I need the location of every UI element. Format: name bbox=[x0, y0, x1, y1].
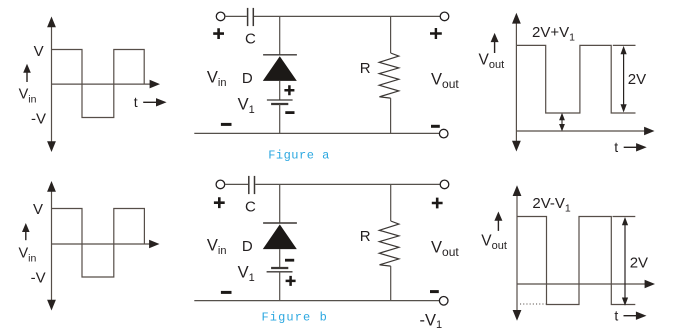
axis arrowhead down bbox=[47, 300, 56, 311]
label arrow up small bbox=[25, 230, 27, 240]
diode D triangle bbox=[263, 224, 297, 249]
terminal output bottom (open circle) bbox=[439, 129, 448, 138]
minus sign output bottom bbox=[430, 290, 439, 293]
svg-text:-V: -V bbox=[31, 270, 46, 287]
battery V1 long plate (+) bbox=[267, 99, 293, 101]
battery V1 short plate (-) on top bbox=[271, 267, 288, 269]
diode D triangle bbox=[263, 56, 297, 81]
diode D cathode bar bbox=[263, 222, 297, 224]
axis arrowhead up bbox=[513, 185, 522, 196]
t axis arrowhead bbox=[150, 80, 160, 89]
wire top junction down to resistor bbox=[390, 184, 392, 221]
svg-text:R: R bbox=[360, 60, 371, 77]
svg-text:2V: 2V bbox=[630, 254, 648, 271]
svg-text:D: D bbox=[242, 238, 253, 255]
label t arrow bbox=[624, 315, 638, 317]
plus sign input top bbox=[213, 28, 224, 39]
wire terminal to capacitor bbox=[225, 183, 248, 185]
label Vout arrow bbox=[494, 42, 496, 53]
terminal input top (open circle) bbox=[216, 180, 225, 189]
wire battery to bottom bbox=[279, 104, 281, 133]
svg-text:2V+V1: 2V+V1 bbox=[532, 24, 575, 44]
plus sign input top bbox=[214, 197, 225, 208]
svg-text:V: V bbox=[33, 201, 43, 218]
battery plus sign bbox=[286, 276, 296, 286]
axis arrowhead down bbox=[47, 141, 56, 152]
minus sign input bottom bbox=[221, 291, 232, 294]
label arrow up small bbox=[26, 71, 28, 82]
wire capacitor to output terminal bbox=[255, 183, 440, 185]
svg-text:V: V bbox=[34, 43, 44, 60]
svg-text:C: C bbox=[245, 198, 256, 215]
wire battery to bottom bbox=[279, 272, 281, 301]
label t arrow bbox=[143, 101, 157, 103]
wire top junction down to diode bbox=[279, 184, 281, 223]
t axis arrowhead bbox=[644, 127, 654, 136]
Vin axis vertical bbox=[51, 189, 53, 302]
label t arrow bbox=[624, 146, 638, 148]
Vin axis vertical bbox=[51, 25, 53, 143]
wire capacitor to output terminal bbox=[254, 15, 440, 17]
wire resistor to bottom bbox=[390, 98, 392, 133]
capacitor C plate 1 bbox=[247, 8, 249, 26]
battery minus sign bbox=[285, 259, 294, 262]
2V dimension arrow bbox=[623, 50, 625, 108]
t axis arrowhead bbox=[645, 280, 655, 289]
Vout axis vertical bbox=[516, 193, 518, 312]
square wave Vin bbox=[52, 50, 145, 118]
terminal input top (open circle) bbox=[216, 12, 225, 21]
resistor R zigzag bbox=[379, 53, 399, 98]
2V reference tick top bbox=[613, 44, 636, 46]
wire top junction down to resistor bbox=[390, 16, 392, 53]
square wave Vin bbox=[52, 209, 145, 278]
square wave Vout bbox=[517, 217, 635, 305]
svg-text:R: R bbox=[360, 228, 371, 245]
svg-text:Figure a: Figure a bbox=[268, 148, 330, 162]
square wave Vout bbox=[516, 45, 635, 113]
battery plus sign bbox=[284, 85, 294, 95]
svg-text:t: t bbox=[614, 139, 618, 155]
wire terminal to capacitor bbox=[225, 15, 247, 17]
plus sign output top bbox=[432, 198, 443, 209]
terminal output top (open circle) bbox=[440, 12, 449, 21]
capacitor C plate 2 bbox=[252, 8, 254, 26]
capacitor C plate 1 bbox=[248, 176, 250, 194]
svg-text:2V: 2V bbox=[628, 71, 646, 88]
t axis horizontal bbox=[516, 130, 645, 132]
t axis horizontal bbox=[52, 243, 151, 245]
label Vout arrow bbox=[497, 220, 499, 231]
t axis horizontal bbox=[517, 283, 646, 285]
svg-text:Figure b: Figure b bbox=[262, 310, 328, 324]
Vout axis vertical bbox=[515, 21, 517, 144]
svg-text:-V: -V bbox=[31, 111, 46, 128]
svg-text:t: t bbox=[614, 308, 618, 324]
resistor R zigzag bbox=[379, 221, 399, 266]
axis arrowhead down bbox=[512, 141, 521, 152]
wire diode to battery bbox=[279, 249, 281, 268]
battery minus sign bbox=[285, 111, 294, 114]
battery V1 long plate (+) below bbox=[267, 271, 293, 273]
wire resistor to bottom bbox=[390, 266, 392, 301]
wire diode to battery bbox=[279, 81, 281, 100]
svg-text:C: C bbox=[245, 30, 256, 47]
axis arrowhead up bbox=[47, 17, 56, 28]
capacitor C plate 2 bbox=[254, 176, 256, 194]
svg-text:t: t bbox=[134, 94, 138, 110]
axis arrowhead down bbox=[513, 310, 522, 321]
terminal output top (open circle) bbox=[440, 180, 449, 189]
V1 dimension arrow small bbox=[561, 117, 563, 127]
diode D cathode bar bbox=[263, 54, 297, 56]
2V reference tick top bbox=[613, 216, 636, 218]
axis arrowhead up bbox=[47, 181, 56, 192]
2V dimension arrow bbox=[624, 222, 626, 300]
bottom wire bbox=[194, 132, 439, 134]
svg-text:D: D bbox=[242, 70, 253, 87]
t axis arrowhead bbox=[149, 240, 159, 249]
axis arrowhead up bbox=[512, 13, 521, 24]
plus sign output top bbox=[430, 28, 442, 39]
battery V1 short plate (-) bbox=[271, 103, 288, 105]
terminal output bottom (open circle) bbox=[439, 297, 448, 306]
minus sign output bottom bbox=[431, 125, 440, 128]
wire top junction down to diode bbox=[279, 16, 281, 54]
minus sign input bottom bbox=[221, 123, 232, 126]
t axis horizontal bbox=[52, 83, 151, 85]
bottom wire bbox=[194, 300, 439, 302]
dotted reference at -V1 level bbox=[520, 303, 547, 305]
